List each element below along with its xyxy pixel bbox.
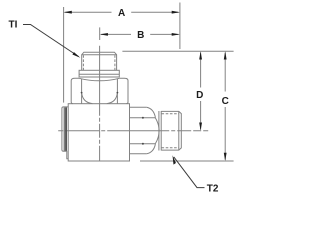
dimension line B [100,33,180,36]
leader line T2 [173,155,205,187]
svg-text:C: C [222,96,229,107]
svg-text:T2: T2 [207,184,219,195]
T1 hex [71,78,128,103]
body block [68,104,129,161]
T2 thread dashed lines [162,114,179,148]
centerline horizontal (T2 axis) [58,130,208,132]
T1 thread dashed lines [83,55,115,70]
dimension line D [199,51,202,130]
T1 stud (top port thread) [82,52,117,70]
T1 washer [79,70,119,77]
leader line T1 [23,25,80,58]
svg-text:A: A [118,8,125,19]
dimension line A [64,11,180,14]
T2 hex (right port) [130,107,160,154]
extension line right (dims A,B at end of T2 stud) [179,3,181,50]
extension line top (dims C,D at top of T1 stud) [122,50,233,52]
T2 washer [159,111,161,151]
svg-text:TI: TI [9,19,18,30]
svg-text:B: B [137,30,144,41]
left flange face lines (dark band) [64,107,66,150]
svg-text:D: D [196,90,203,101]
left flange plate outline [62,107,68,159]
dimension line C [224,51,227,161]
centerline vertical (T1 axis) [99,46,101,161]
extension line bottom (dim C at body bottom) [140,160,234,162]
extension line left (dim A) [63,7,65,103]
T2 stud (right port thread) [161,111,181,150]
extension tick for dim B (T1 centerline) [99,27,101,40]
